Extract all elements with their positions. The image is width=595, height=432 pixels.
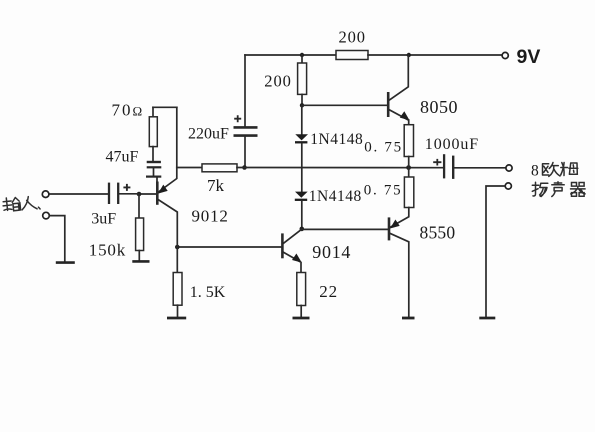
- transistor Q2 9014 (NPN): [282, 230, 301, 273]
- resistor R-200 (top horizontal 200): [336, 51, 368, 60]
- svg-text:47uF: 47uF: [106, 148, 139, 165]
- svg-text:9V: 9V: [517, 46, 541, 68]
- wire 150k stub: [138, 194, 140, 218]
- ground 1.5K: [167, 317, 186, 320]
- terminal 9V supply: [502, 52, 508, 58]
- svg-text:1000uF: 1000uF: [425, 136, 479, 153]
- ground 150k: [132, 260, 149, 263]
- svg-text:200: 200: [339, 27, 366, 46]
- wire 150k to ground: [138, 251, 140, 261]
- svg-text:9014: 9014: [312, 242, 351, 262]
- ground input: [56, 261, 75, 264]
- wire C-220uF to mid rail: [244, 137, 246, 168]
- diode D2 1N4148: [295, 192, 308, 200]
- resistor R-200 (vertical bias): [298, 63, 307, 94]
- svg-text:220uF: 220uF: [188, 125, 229, 142]
- wire D1 to D2 (crosses mid rail): [301, 144, 303, 192]
- node junction 9012 collector node: [175, 245, 180, 250]
- wire 9012 base: [139, 193, 157, 195]
- svg-text:3uF: 3uF: [91, 210, 116, 227]
- resistor R-150k: [136, 218, 144, 251]
- wire mid rail center segment: [237, 167, 443, 169]
- node junction 220uF on mid rail: [242, 165, 247, 170]
- wire 9012 collector to 9014 base: [177, 246, 282, 248]
- ground speaker return: [479, 317, 495, 320]
- terminal input +: [42, 191, 49, 198]
- wire 8550 base: [302, 228, 389, 230]
- wire 9012 collector to 1.5K: [176, 247, 178, 273]
- wire mid rail left segment (9012 emitter to 7k): [177, 167, 202, 169]
- net label 8 ohm speaker (Chinese) line1: [531, 163, 578, 180]
- capacitor C-220uF: [234, 115, 258, 135]
- net label input (Chinese): [2, 195, 40, 213]
- svg-text:8050: 8050: [420, 97, 458, 117]
- node junction 8050 base node: [300, 103, 304, 107]
- wire top supply rail right segment: [368, 54, 502, 56]
- wire 200 to 8050 base node: [301, 94, 303, 105]
- node junction on rail at 200 divider: [300, 53, 304, 57]
- resistor R-70ohm: [149, 117, 157, 147]
- wire top supply rail left segment: [245, 54, 336, 56]
- wire link to 70 ohm: [152, 107, 154, 117]
- svg-text:0. 75: 0. 75: [364, 182, 403, 198]
- wire 1000uF to speaker terminal: [454, 167, 506, 169]
- wire 200 bias dropper stub: [301, 55, 303, 63]
- ground 8550 collector: [402, 317, 415, 320]
- svg-text:7k: 7k: [207, 176, 225, 195]
- node junction driver collector node: [300, 227, 305, 232]
- wire input coupling right: [120, 193, 139, 195]
- terminal speaker -: [505, 183, 511, 189]
- svg-text:1N4148: 1N4148: [310, 131, 363, 148]
- wire 8050 base: [302, 104, 388, 106]
- wire D2 to driver node: [301, 201, 303, 229]
- resistor R-0.75 (upper): [404, 125, 413, 157]
- node junction output node: [406, 165, 411, 170]
- wire left drop from rail to C-220uF: [244, 55, 246, 126]
- resistor R-0.75 (lower): [404, 177, 413, 208]
- svg-text:1. 5K: 1. 5K: [190, 284, 226, 301]
- wire output node to 0.75 lower: [408, 168, 410, 178]
- wire 22 to ground: [300, 306, 302, 318]
- wire 1.5K to ground: [177, 305, 179, 317]
- capacitor C-1000uF: [433, 154, 453, 179]
- svg-text:22: 22: [319, 282, 338, 301]
- capacitor C-3uF: [109, 183, 130, 204]
- net label speaker (Chinese) line2: [532, 182, 585, 197]
- resistor R-7k: [202, 164, 237, 172]
- terminal speaker +: [506, 165, 512, 171]
- wire node to diode D1: [301, 105, 303, 134]
- node junction on rail at 8050 collector: [407, 53, 411, 57]
- transistor Q4 8550 (PNP): [389, 208, 409, 318]
- resistor R-22: [297, 273, 306, 306]
- svg-text:150k: 150k: [89, 241, 126, 260]
- wire input ground stub: [50, 216, 65, 261]
- transistor Q1 9012 (PNP): [157, 107, 177, 247]
- wire input terminal to 3uF: [49, 193, 107, 195]
- node junction 9012 base node: [137, 192, 142, 197]
- capacitor C-47uF: [146, 162, 161, 182]
- svg-text:9012: 9012: [192, 206, 229, 225]
- wire emitter top link: [153, 106, 177, 108]
- terminal input -: [43, 212, 50, 219]
- svg-text:70Ω: 70Ω: [112, 100, 143, 119]
- ground 22: [293, 317, 310, 320]
- svg-text:1N4148: 1N4148: [309, 188, 362, 205]
- wire 0.75 upper to output node: [408, 157, 410, 168]
- svg-text:8: 8: [531, 163, 539, 180]
- diode D1 1N4148: [295, 134, 308, 142]
- resistor R-1.5K: [173, 273, 182, 306]
- transistor Q3 8050 (NPN): [388, 55, 409, 125]
- svg-text:8550: 8550: [420, 222, 456, 242]
- wire 70ohm to 47uF: [152, 147, 154, 161]
- wire speaker return: [486, 186, 505, 318]
- svg-text:200: 200: [264, 71, 291, 90]
- svg-text:0. 75: 0. 75: [364, 140, 403, 156]
